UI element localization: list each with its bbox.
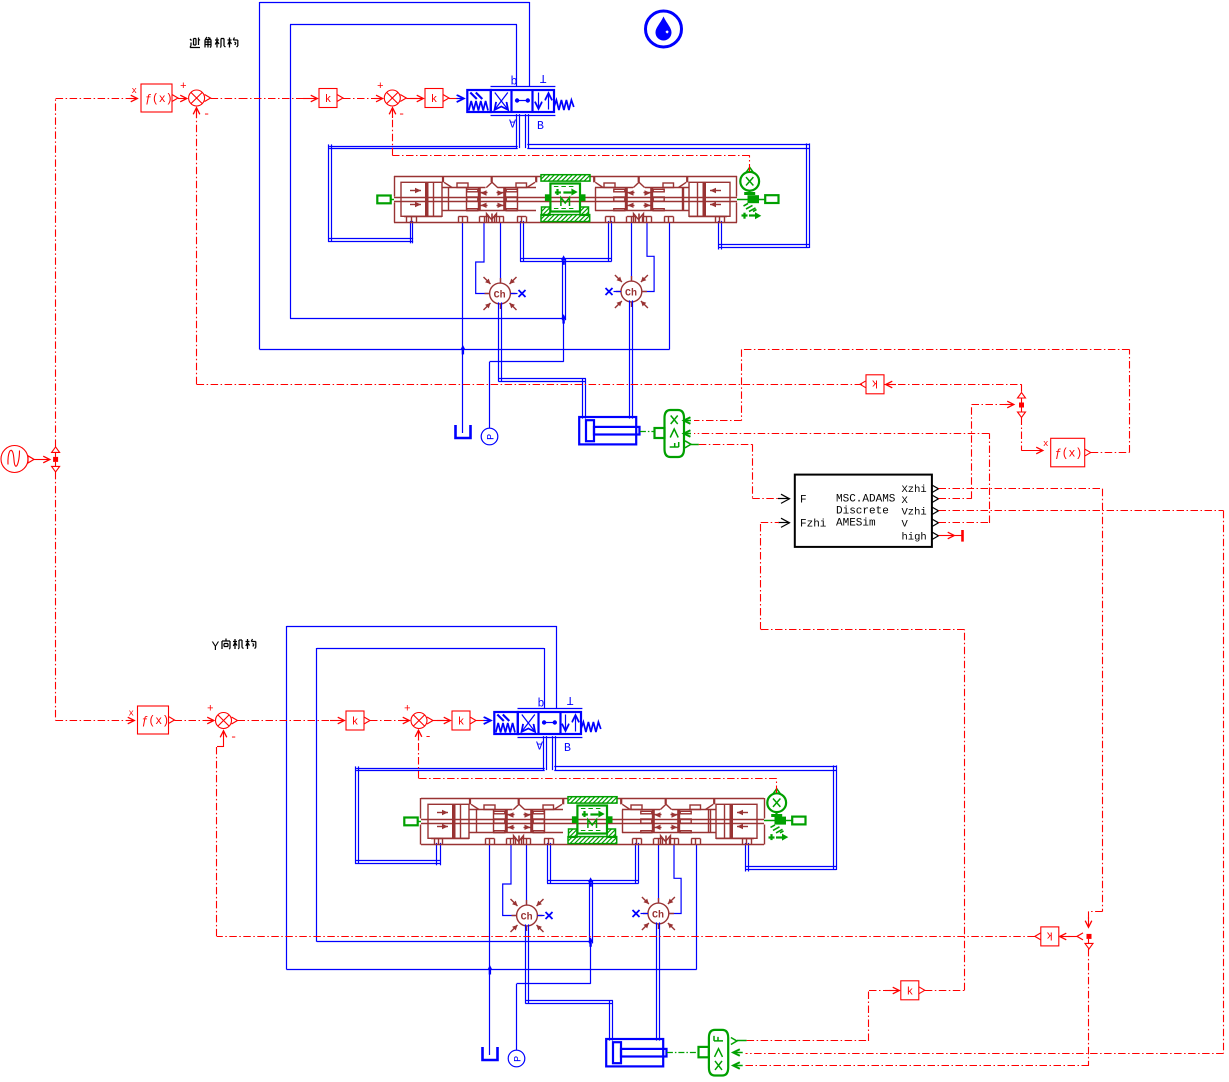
svg-text:Ch: Ch <box>652 909 664 921</box>
svg-text:b: b <box>511 76 518 89</box>
svg-text:-: - <box>230 730 237 744</box>
svg-text:x: x <box>129 709 134 719</box>
svg-text:Ch: Ch <box>625 287 637 299</box>
svg-text:ƒ(x): ƒ(x) <box>1055 448 1083 461</box>
svg-text:+: + <box>377 81 384 93</box>
svg-text:high: high <box>902 532 927 544</box>
svg-text:T: T <box>567 693 574 706</box>
svg-text:k: k <box>325 94 332 106</box>
svg-text:Vzhi: Vzhi <box>902 507 927 519</box>
svg-text:-: - <box>398 107 405 121</box>
svg-text:A: A <box>536 738 543 751</box>
svg-text:ƒ(x): ƒ(x) <box>145 93 173 106</box>
svg-text:+: + <box>207 704 214 716</box>
svg-text:P: P <box>513 1056 524 1062</box>
svg-text:AMESim: AMESim <box>836 518 876 530</box>
svg-text:B: B <box>564 742 571 755</box>
svg-text:k: k <box>352 717 359 729</box>
svg-text:X: X <box>902 495 909 507</box>
svg-text:A: A <box>509 116 516 129</box>
svg-text:Fzhi: Fzhi <box>800 519 827 531</box>
svg-text:T: T <box>540 71 547 84</box>
svg-text:F: F <box>800 495 807 507</box>
svg-text:+: + <box>404 704 411 716</box>
svg-text:-: - <box>425 730 432 744</box>
svg-text:Ch: Ch <box>521 911 533 923</box>
svg-text:k: k <box>871 376 878 388</box>
svg-text:k: k <box>907 986 914 998</box>
svg-text:Discrete: Discrete <box>836 506 889 518</box>
svg-text:Ch: Ch <box>494 289 506 301</box>
svg-text:MSC.ADAMS: MSC.ADAMS <box>836 494 896 506</box>
svg-text:x: x <box>1043 439 1048 449</box>
svg-text:k: k <box>431 94 438 106</box>
svg-text:b: b <box>538 698 545 711</box>
svg-text:+: + <box>180 81 187 93</box>
svg-text:k: k <box>458 717 465 729</box>
svg-text:Y: Y <box>212 639 220 654</box>
svg-text:V: V <box>902 519 909 531</box>
svg-text:x: x <box>132 86 137 96</box>
svg-text:ƒ(x): ƒ(x) <box>142 715 170 728</box>
svg-text:P: P <box>486 434 497 440</box>
svg-text:-: - <box>203 107 210 121</box>
svg-text:B: B <box>537 120 544 133</box>
svg-text:k: k <box>1046 928 1053 940</box>
